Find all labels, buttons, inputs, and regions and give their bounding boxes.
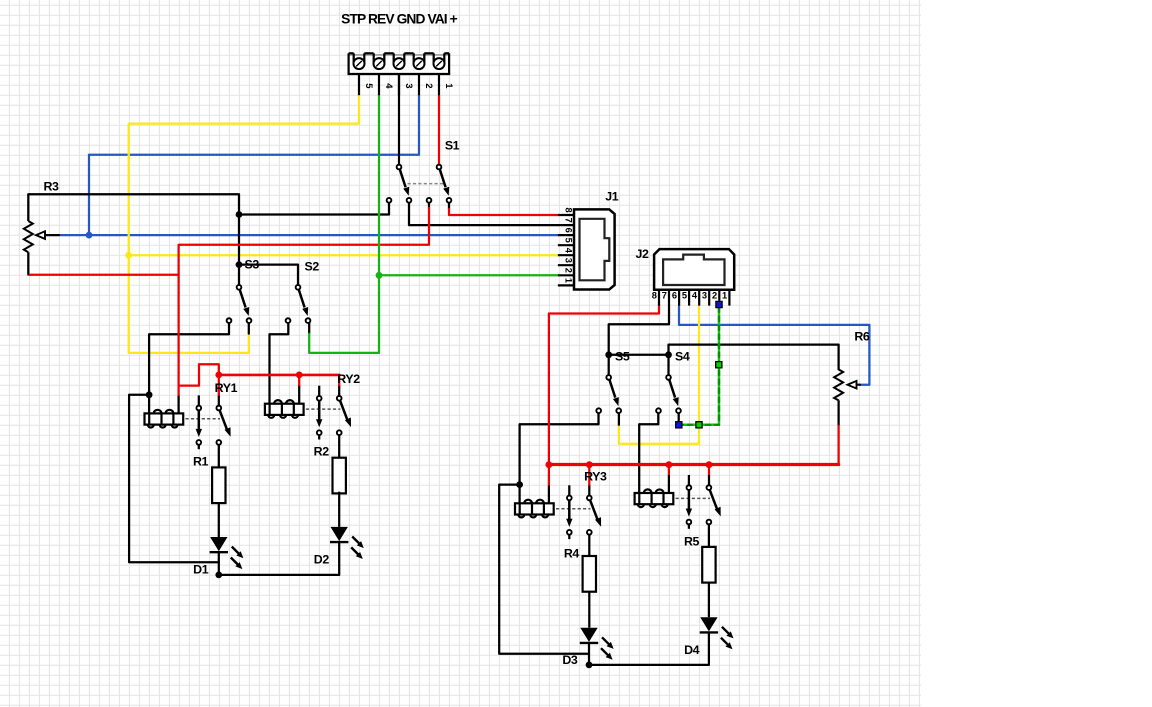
wire green branch to J1 pin2 xyxy=(379,274,558,276)
wiper arrow R6 xyxy=(848,381,857,389)
switch S3 xyxy=(227,285,252,323)
junction red rail d xyxy=(706,461,713,468)
junction S4 node xyxy=(665,351,672,358)
svg-text:R4: R4 xyxy=(564,546,580,560)
wire red S1 to J1 pin8 xyxy=(449,209,558,215)
junction red rail a xyxy=(546,461,553,468)
svg-text:4: 4 xyxy=(563,248,573,254)
wire black STP pin3 to S1 xyxy=(398,74,400,165)
svg-text:STP REV GND VAI +: STP REV GND VAI + xyxy=(341,12,458,27)
junction S3 node xyxy=(236,261,243,268)
svg-text:7: 7 xyxy=(563,218,573,223)
wire stub RY4 pole2 xyxy=(708,474,710,485)
junction RY1 coil left xyxy=(146,391,153,398)
svg-text:7: 7 xyxy=(662,291,667,301)
switch S1 pole B xyxy=(427,165,452,203)
wire black to S1 contact1 xyxy=(239,203,389,215)
svg-text:5: 5 xyxy=(563,238,573,243)
wire red RY2 pole2 xyxy=(338,375,340,385)
relay RY1 xyxy=(145,395,231,449)
svg-text:D1: D1 xyxy=(193,563,209,577)
junction red RY1 xyxy=(215,372,222,379)
switch S5 xyxy=(596,375,621,413)
wire stub RY1 pole2 xyxy=(218,395,220,405)
wire black S3 left to RY1 coil xyxy=(149,323,229,395)
wire black RY3 coil left pin xyxy=(518,485,520,504)
wire bottom rail D1-D2 xyxy=(219,543,339,575)
wire black loop to D3 xyxy=(499,485,589,654)
wire black R6 bottom lead xyxy=(837,400,839,426)
LED D4 xyxy=(700,617,734,649)
square marker green on yellow xyxy=(696,422,702,428)
wire black S4 to R6 top xyxy=(669,345,839,370)
potentiometer R6 body xyxy=(834,369,843,400)
svg-text:6: 6 xyxy=(563,228,573,233)
svg-text:1: 1 xyxy=(443,83,454,89)
junction red rail b xyxy=(586,461,593,468)
svg-text:R1: R1 xyxy=(193,455,209,469)
wire blue to wiper xyxy=(59,234,89,236)
wire red RY2 coil pin xyxy=(298,375,300,385)
wire blue branch to J1 pin6 xyxy=(89,234,558,236)
wire R2 to D2 xyxy=(338,492,340,527)
svg-text:2: 2 xyxy=(712,291,717,301)
wire black S3 common xyxy=(238,265,240,286)
wire D1 cathode xyxy=(218,552,220,575)
potentiometer R3 body xyxy=(24,221,33,252)
svg-text:2: 2 xyxy=(563,268,573,273)
LED D3 xyxy=(580,628,614,660)
wire stub S1 contact3 xyxy=(428,203,430,208)
svg-text:3: 3 xyxy=(702,291,707,301)
svg-text:S4: S4 xyxy=(675,350,690,364)
wire stub S3 right contact xyxy=(248,323,250,334)
svg-text:D4: D4 xyxy=(684,643,700,657)
wire D3 cathode xyxy=(588,643,590,665)
wire black RY3 coil right pin xyxy=(548,485,550,504)
svg-text:S1: S1 xyxy=(445,139,460,153)
svg-text:J1: J1 xyxy=(605,189,618,203)
relay RY2 xyxy=(265,386,351,440)
LED D2 xyxy=(330,527,364,559)
relay RY3 xyxy=(515,485,601,539)
switch S2 xyxy=(286,285,311,323)
wire red step to RY1 xyxy=(179,364,219,385)
junction yellow xyxy=(125,252,132,259)
svg-text:4: 4 xyxy=(383,83,394,89)
junction blue xyxy=(86,232,93,239)
wire R3 bottom lead xyxy=(27,252,29,275)
wiper arrow R3 xyxy=(36,231,45,239)
svg-text:4: 4 xyxy=(692,291,698,301)
svg-text:3: 3 xyxy=(563,258,573,263)
terminal block 5-pin screw connector xyxy=(348,53,454,95)
svg-text:6: 6 xyxy=(672,291,677,301)
wire black S1 contact2 to J1 pin7 xyxy=(409,203,558,225)
relay RY4 xyxy=(635,475,721,529)
svg-text:D2: D2 xyxy=(314,553,330,567)
wire black wiper lead xyxy=(45,234,59,236)
svg-text:R6: R6 xyxy=(854,329,870,343)
junction node xyxy=(236,211,243,218)
wire RY2 to R2 xyxy=(338,435,340,458)
wire stub S1 contact4 xyxy=(448,203,450,209)
wire black S5 to S4 xyxy=(609,354,669,356)
square marker blue S4 xyxy=(676,422,682,428)
svg-text:S5: S5 xyxy=(615,350,630,364)
wire black R6 wiper lead xyxy=(856,384,860,386)
wire stub S2 right contact xyxy=(308,323,310,334)
wire red RY4 pole2 xyxy=(708,465,710,475)
junction D1 xyxy=(215,572,222,579)
svg-text:5: 5 xyxy=(363,83,374,89)
svg-text:1: 1 xyxy=(722,291,727,301)
junction S5 node xyxy=(605,351,612,358)
wire red main vertical xyxy=(179,208,429,395)
wire red RY3 coil pin xyxy=(548,465,550,485)
wire red RY1 pole2 xyxy=(218,375,220,395)
LED D1 xyxy=(210,537,244,569)
wire red rail to RY2 xyxy=(219,374,339,377)
wire black R3 top to S1/S3 xyxy=(28,194,239,214)
wire black S4 left to RY4 coil xyxy=(639,412,658,493)
wire stub S4 right contact xyxy=(678,413,680,422)
wire R3 top lead xyxy=(27,194,29,221)
svg-text:J2: J2 xyxy=(636,247,649,261)
square marker green mid xyxy=(716,362,722,368)
svg-text:3: 3 xyxy=(403,83,414,88)
wire red RY3 pole2 xyxy=(588,465,590,485)
wire RY1 to R1 xyxy=(218,445,220,468)
square marker blue J2 pin2 xyxy=(716,301,722,307)
wire R4 to D3 xyxy=(588,593,590,628)
wire R1 to D1 xyxy=(218,503,220,537)
svg-text:D3: D3 xyxy=(562,653,578,667)
svg-text:R5: R5 xyxy=(684,535,700,549)
svg-text:RY3: RY3 xyxy=(584,469,607,483)
mechanical link S1 xyxy=(408,183,444,185)
wire stub S5 right contact xyxy=(618,412,620,424)
wire green STP pin4 to S2 xyxy=(309,95,379,353)
svg-text:1: 1 xyxy=(563,278,573,283)
wire yellow branch to J1 pin4 xyxy=(129,254,558,256)
wire yellow STP pin5 to S3 xyxy=(129,95,359,353)
svg-text:5: 5 xyxy=(682,291,687,301)
wire bottom rail D3-D4 xyxy=(589,633,709,665)
junction green xyxy=(376,272,383,279)
wire black RY2 coil right pin xyxy=(298,385,300,404)
wire RY3 to R4 xyxy=(588,534,590,556)
svg-text:8: 8 xyxy=(563,208,573,213)
wire stub RY2 pole2 xyxy=(338,385,340,396)
junction D3 xyxy=(586,662,593,669)
wire black RY1 coil left pin xyxy=(148,395,150,414)
wire black RY4 coil right pin xyxy=(668,474,670,493)
wire black RY1 coil right pin xyxy=(177,395,179,414)
wire black loop to D1 xyxy=(129,395,219,563)
wire green J2 pin2 to S4 xyxy=(679,308,719,425)
wire yellow J2 pin4 to S5 xyxy=(619,306,699,444)
wire red R3 bottom xyxy=(28,274,178,276)
svg-text:R2: R2 xyxy=(314,444,330,458)
wire blue J2 pin6 to R6 wiper xyxy=(679,306,869,385)
resistor R5 xyxy=(702,547,715,583)
wire black J2 pin7 to S5 xyxy=(609,306,669,355)
resistor R2 xyxy=(333,458,346,494)
switch S1 pole A xyxy=(387,165,412,203)
wire red to R6 bottom xyxy=(837,426,839,465)
wire black S5 common xyxy=(608,355,610,376)
wire black down to S3 xyxy=(238,215,240,265)
svg-text:S2: S2 xyxy=(305,259,320,273)
connector J1 xyxy=(558,208,615,290)
junction RY3 coil left xyxy=(516,481,523,488)
wire R5 to D4 xyxy=(708,583,710,617)
wire black S2 left to RY2 coil xyxy=(270,323,289,404)
wire black S5 left to RY3 coil xyxy=(520,412,599,484)
junction red rail c xyxy=(666,461,673,468)
resistor R1 xyxy=(212,467,225,503)
connector J2 xyxy=(652,249,734,306)
wire blue STP pin2 to R3 wiper xyxy=(89,95,419,235)
svg-text:RY1: RY1 xyxy=(215,381,238,395)
wire red STP pin1 to S1 xyxy=(438,95,440,165)
svg-text:S3: S3 xyxy=(245,258,260,272)
svg-text:RY2: RY2 xyxy=(337,372,360,386)
wire black S4 common xyxy=(667,355,669,376)
wire red RY4 coil pin xyxy=(668,465,670,475)
junction red RY2 coil xyxy=(296,372,303,379)
wire red J2 pin8 xyxy=(549,305,659,465)
switch S4 xyxy=(656,375,681,413)
svg-text:8: 8 xyxy=(652,291,657,301)
wire RY4 to R5 xyxy=(708,524,710,547)
wire red rail right xyxy=(549,463,839,466)
wire stub RY3 pole2 xyxy=(588,485,590,496)
resistor R4 xyxy=(583,556,596,592)
svg-text:R3: R3 xyxy=(43,180,59,194)
wire black S3 to S2 common xyxy=(239,265,298,286)
svg-text:2: 2 xyxy=(423,83,434,88)
